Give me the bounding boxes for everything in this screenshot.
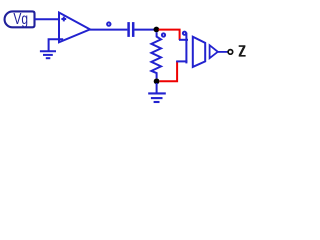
wire to ground 2 [156, 83, 158, 93]
amplifier U2 body [193, 37, 205, 67]
wire capacitor to node [135, 29, 156, 31]
op-amp U1 [59, 13, 90, 43]
ground G1 [40, 51, 56, 58]
node dot (probe) [183, 32, 186, 35]
junction node B [154, 78, 160, 84]
capacitor C1 [129, 22, 134, 37]
terminal circle [228, 50, 233, 55]
amplifier U2 output stage [210, 45, 218, 58]
wire op-amp output [90, 29, 128, 31]
svg-text:Vg: Vg [13, 9, 28, 27]
device top input stub [179, 39, 188, 41]
port Vg [5, 9, 35, 27]
wire red top [159, 30, 180, 40]
wire to terminal Z [218, 51, 228, 53]
device bottom input stub [176, 60, 187, 62]
wire Vg to op-amp [35, 18, 59, 20]
ground G2 [148, 93, 166, 102]
node dot (probe) [107, 22, 110, 25]
node dot (probe) [162, 33, 165, 36]
junction node A [154, 27, 160, 33]
label Z [239, 45, 246, 56]
resistor R1 [151, 32, 161, 78]
device input bar [185, 33, 187, 64]
wire red bottom [160, 61, 178, 81]
wire minus input to ground [49, 39, 64, 51]
